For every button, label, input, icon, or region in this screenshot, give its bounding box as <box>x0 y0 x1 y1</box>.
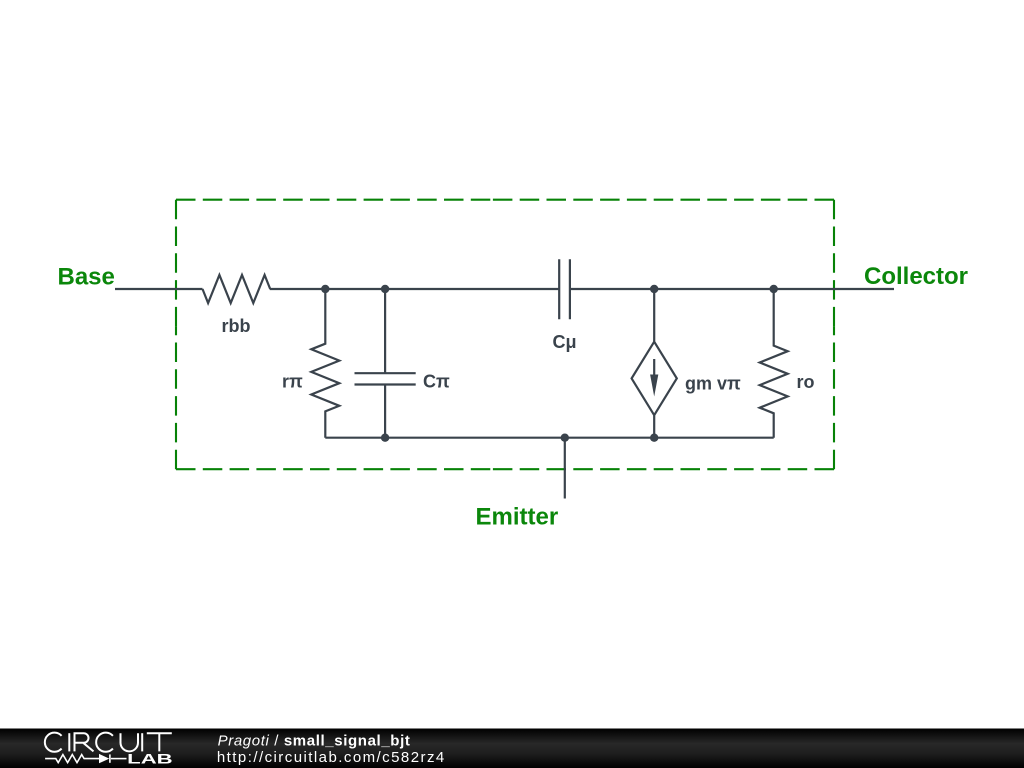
svg-text:Cπ: Cπ <box>423 372 450 392</box>
svg-text:Pragoti / small_signal_bjt: Pragoti / small_signal_bjt <box>218 732 411 749</box>
svg-text:LAB: LAB <box>127 750 173 766</box>
svg-text:rπ: rπ <box>282 372 303 392</box>
svg-text:http://circuitlab.com/c582rz4: http://circuitlab.com/c582rz4 <box>217 749 446 766</box>
svg-text:Cμ: Cμ <box>553 332 577 352</box>
svg-text:gm vπ: gm vπ <box>685 374 741 394</box>
svg-text:ro: ro <box>797 372 815 392</box>
svg-text:Emitter: Emitter <box>476 504 559 531</box>
svg-text:Collector: Collector <box>864 263 968 290</box>
svg-text:rbb: rbb <box>222 316 251 336</box>
svg-text:Base: Base <box>58 264 115 291</box>
